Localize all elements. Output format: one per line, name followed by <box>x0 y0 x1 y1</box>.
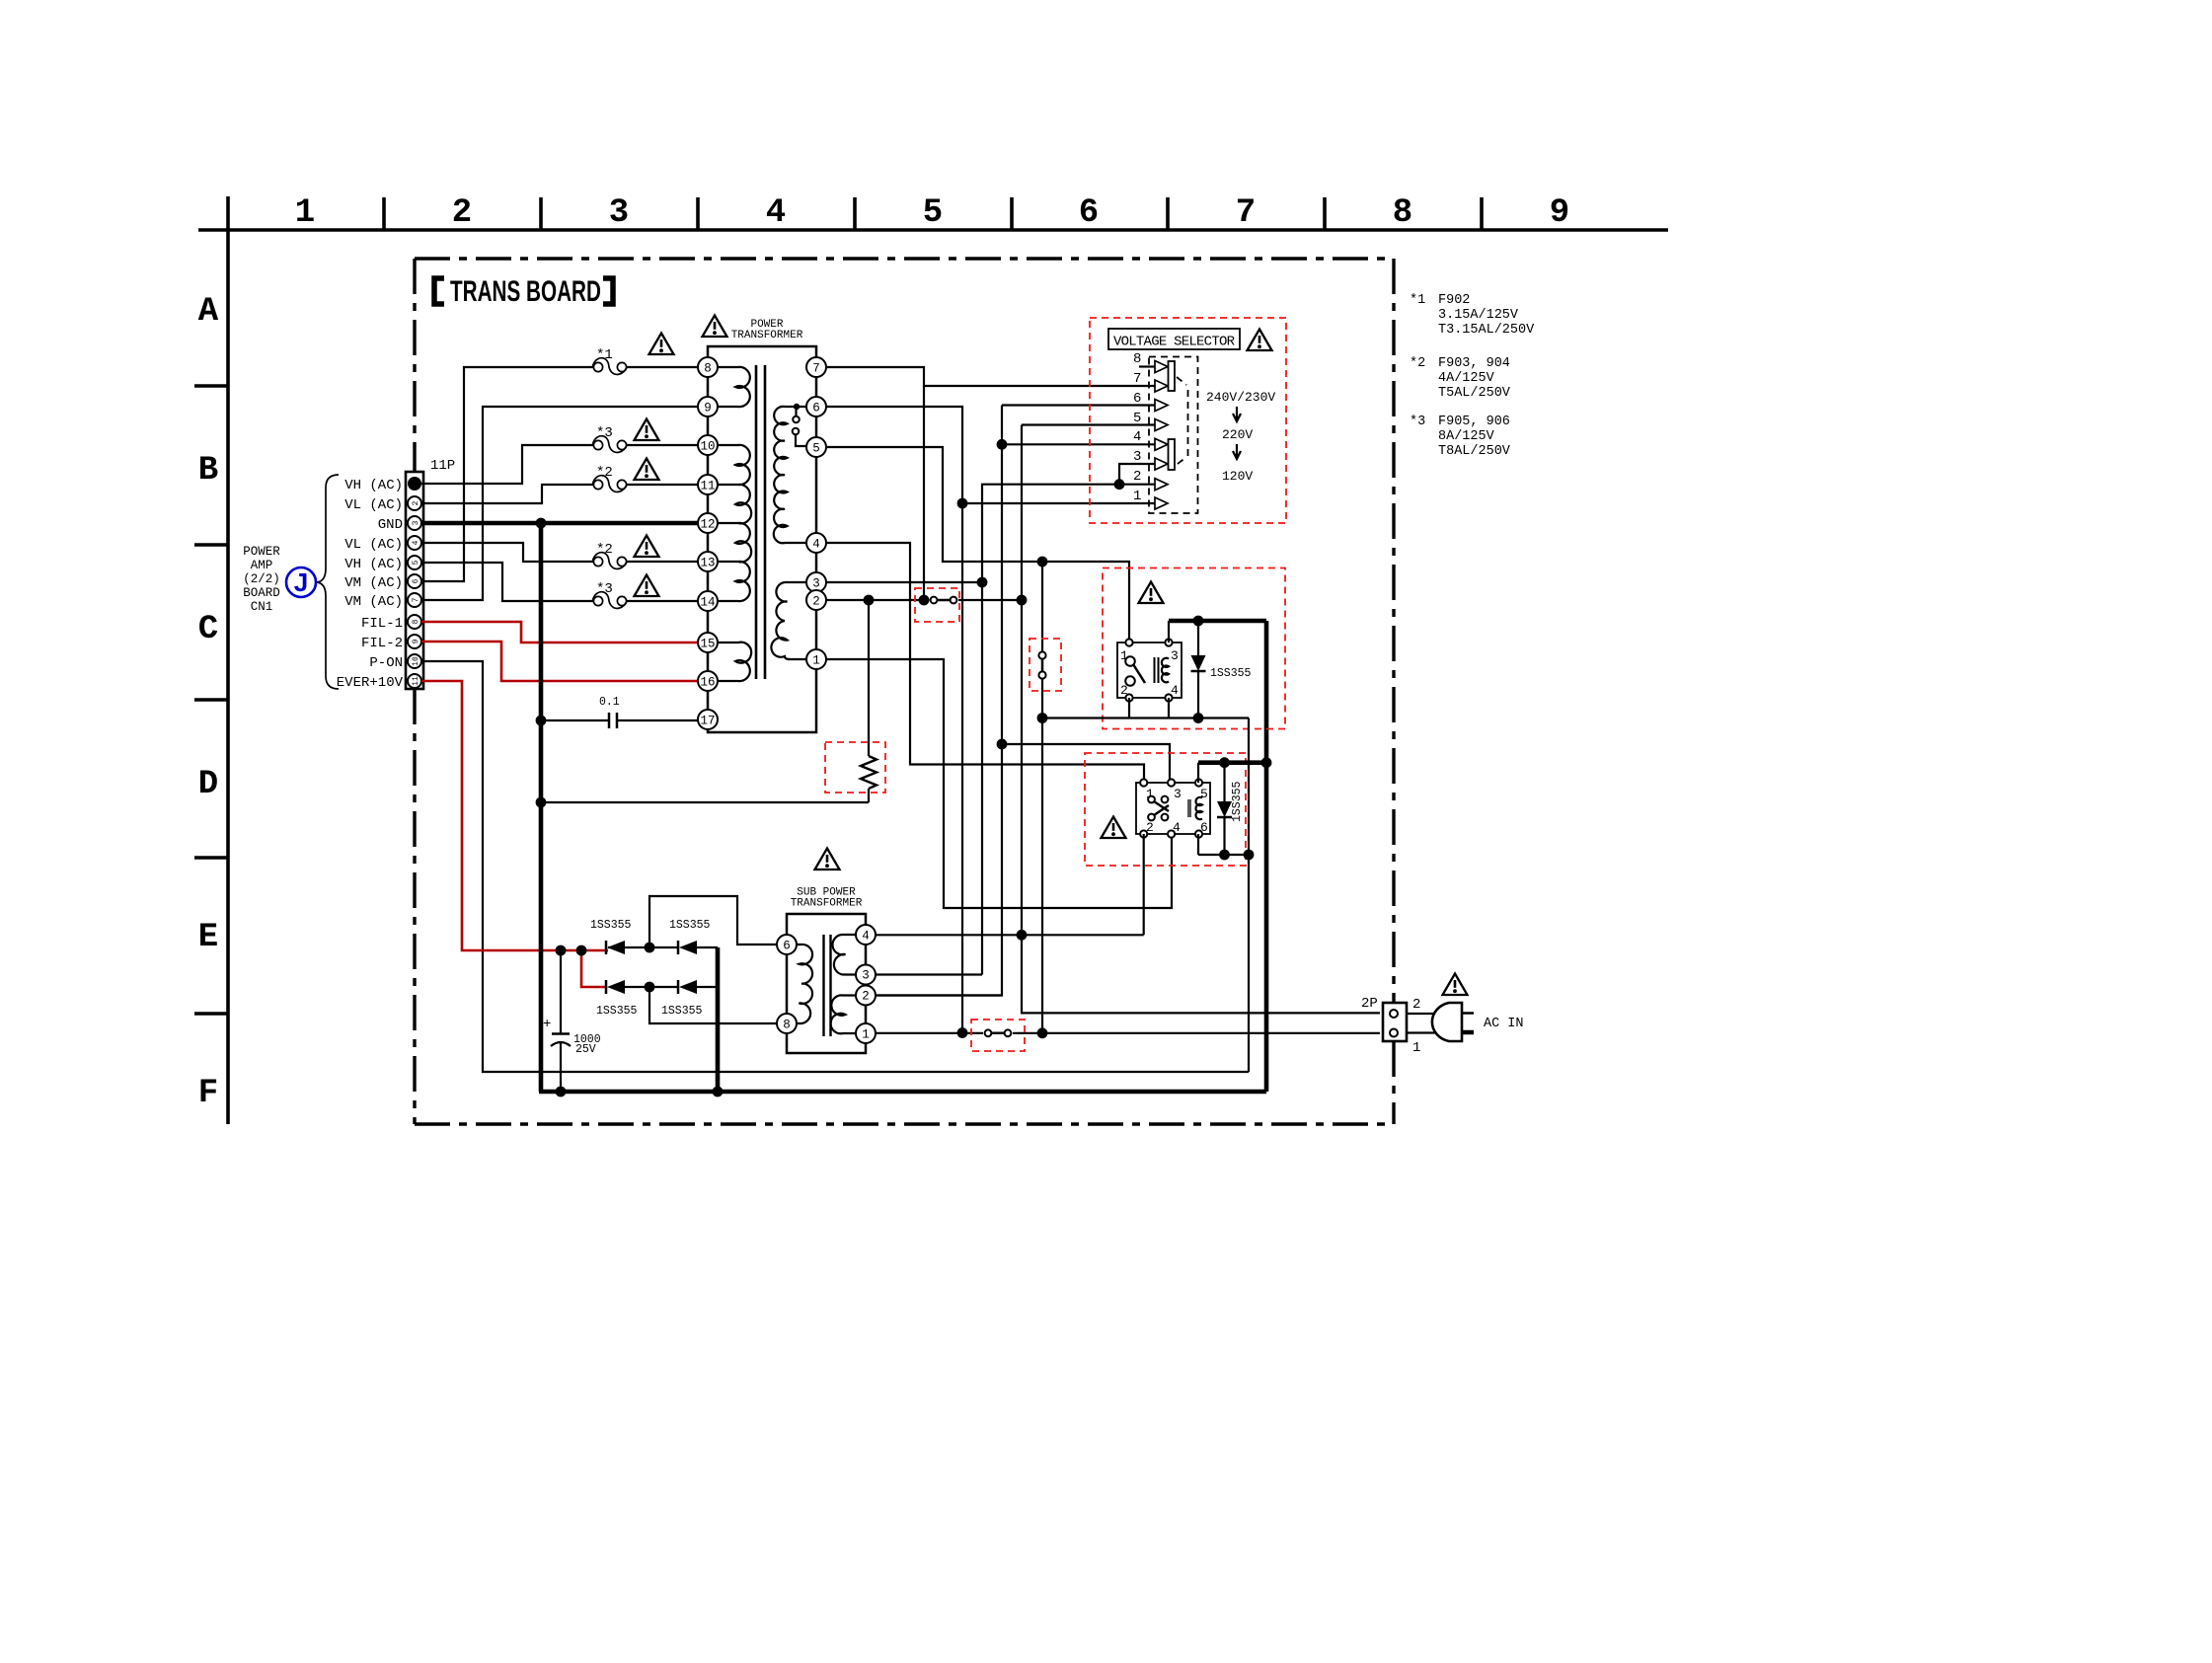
wire pin2 to jumper and 120V bus <box>826 599 929 601</box>
wire VH(AC) pin5 to fuse *3b to XFMR pin14 <box>421 563 596 601</box>
wire selector 4 feed <box>1002 443 1155 445</box>
relay RY901 pin circles <box>1125 639 1132 645</box>
svg-text:8: 8 <box>412 619 420 624</box>
junction on GND vertical for bleeder resistor <box>536 797 547 808</box>
junction cap 1000uF to GND bottom <box>556 1087 567 1097</box>
svg-text:3: 3 <box>609 194 629 232</box>
svg-text:17: 17 <box>700 715 715 728</box>
thick return vertical right <box>1264 621 1269 1092</box>
connector J circle <box>286 567 316 597</box>
svg-text:13: 13 <box>700 557 715 570</box>
warning triangle at power transformer <box>703 316 727 338</box>
svg-text:12: 12 <box>700 518 715 532</box>
svg-text:3: 3 <box>1171 648 1179 663</box>
svg-text:EVER+10V: EVER+10V <box>337 675 404 691</box>
svg-text:VL (AC): VL (AC) <box>344 537 403 553</box>
transformer right pins 7-1 <box>806 357 826 669</box>
svg-text:1: 1 <box>812 654 820 668</box>
svg-text:AC IN: AC IN <box>1484 1017 1524 1031</box>
svg-text:4: 4 <box>812 538 820 552</box>
svg-text:GND: GND <box>378 517 403 533</box>
selector pin numbers <box>1133 351 1141 504</box>
relay RY902 coil <box>1195 797 1202 819</box>
selector black dashed box <box>1149 357 1198 514</box>
wire sub pin4 to relay RY902 pin2 <box>876 934 1144 936</box>
wire AC select connector down to 2P pin1 line <box>1041 718 1043 1033</box>
relay RY902 body <box>1136 783 1210 834</box>
wire relay RY901 pin3 to thick bus <box>1168 621 1170 643</box>
svg-text:5: 5 <box>812 442 820 456</box>
pin labels <box>337 478 404 691</box>
svg-text:CN1: CN1 <box>251 600 273 614</box>
svg-text:5: 5 <box>1200 787 1208 801</box>
wire pin5 to relay RY901 pin1 <box>826 447 1129 643</box>
wire pin3 to sub transformer riser <box>826 581 982 583</box>
relay RY901 contact <box>1125 656 1135 666</box>
svg-text:5: 5 <box>412 560 420 565</box>
transformer core <box>755 365 758 679</box>
AC select service connector (2 circles) <box>1041 562 1043 652</box>
column numbers 1-9 <box>295 194 1569 232</box>
selector lever dashes <box>1177 377 1188 464</box>
sub transformer pins <box>777 935 797 954</box>
svg-text:BOARD: BOARD <box>243 586 280 600</box>
svg-text:VM (AC): VM (AC) <box>344 594 403 610</box>
fuse F905 *3 (pin10 row) <box>593 436 628 453</box>
junction pin3 to sub riser <box>977 577 988 588</box>
svg-text:E: E <box>198 919 218 956</box>
svg-text:POWER: POWER <box>243 545 280 559</box>
pins 2-11 circles <box>408 496 421 688</box>
svg-text:*3: *3 <box>596 581 613 597</box>
svg-text:FIL-2: FIL-2 <box>361 636 403 651</box>
wire pin7 to selector 7 <box>826 367 1155 386</box>
warning triangle at fuse *1 <box>649 334 674 355</box>
warning triangle at relay RY902 <box>1102 817 1126 839</box>
svg-text:VM (AC): VM (AC) <box>344 575 403 591</box>
relay RY901 coil core <box>1154 657 1156 683</box>
svg-text:10: 10 <box>700 440 715 454</box>
top ruler line <box>198 228 1668 232</box>
svg-text:7: 7 <box>812 362 820 376</box>
junction EVER+10V branch <box>576 945 587 956</box>
svg-text:5: 5 <box>923 194 943 232</box>
svg-text:TRANS BOARD: TRANS BOARD <box>450 275 601 308</box>
svg-text:8A/125V: 8A/125V <box>1438 429 1495 444</box>
svg-text:3: 3 <box>1133 449 1141 465</box>
fuse F904 *2 (pin13 row) <box>593 553 628 569</box>
svg-text:4: 4 <box>862 930 870 944</box>
svg-text:A: A <box>198 293 219 331</box>
wire VM(AC) pin6 to fuse *1 to XFMR pin8 <box>421 367 596 581</box>
warning triangle at relay RY901 <box>1139 582 1164 604</box>
junction EVER+10V to capacitor branch <box>556 945 567 956</box>
relay coil return vertical <box>1248 718 1250 1073</box>
svg-text:(2/2): (2/2) <box>243 572 280 586</box>
svg-text:1SS355: 1SS355 <box>669 919 711 932</box>
svg-text:*1: *1 <box>1410 293 1425 308</box>
svg-text:3: 3 <box>812 577 820 591</box>
bridge output vertical (thick) <box>716 947 721 1092</box>
AC power switch S901 <box>988 1032 1008 1035</box>
svg-text:220V: 220V <box>1222 427 1253 442</box>
svg-text:B: B <box>198 452 218 490</box>
junction bleeder resistor on pin2 line <box>864 595 875 606</box>
svg-text:6: 6 <box>412 578 420 583</box>
svg-text:*2: *2 <box>1410 356 1425 371</box>
svg-text:F902: F902 <box>1438 293 1470 308</box>
left ruler ticks <box>194 386 228 1014</box>
thick wire relay RY901 top <box>1169 619 1266 624</box>
svg-text:11: 11 <box>700 480 715 493</box>
2P connector <box>1383 1003 1407 1041</box>
svg-text:1: 1 <box>862 1028 870 1042</box>
junction diode D901 bottom <box>1193 713 1204 723</box>
svg-text:1: 1 <box>295 194 315 232</box>
junction selector7 riser on pin2 line <box>919 595 930 606</box>
selector switch bar 8-7 <box>1169 361 1176 391</box>
svg-text:*3: *3 <box>596 425 613 441</box>
svg-text:0.1: 0.1 <box>599 696 620 709</box>
svg-text:TRANSFORMER: TRANSFORMER <box>731 330 803 341</box>
top ruler ticks <box>384 197 1482 230</box>
pin numbers (rotated) <box>412 500 420 685</box>
wire GND to bleeder resistor <box>541 801 869 803</box>
svg-text:11P: 11P <box>430 458 455 474</box>
svg-text:2: 2 <box>452 194 472 232</box>
wire selector 5 feed <box>1022 423 1155 425</box>
wire relay RY901 bottom bus <box>1042 717 1249 718</box>
svg-text:1SS355: 1SS355 <box>596 1005 638 1018</box>
svg-text:+: + <box>543 1017 551 1032</box>
transformer left pins 8-17 <box>698 357 718 729</box>
transformer outline box <box>708 346 816 377</box>
120V bus vertical (selector 5 - pin2 - 2P) <box>1022 425 1380 1014</box>
wire pin1 to relay RY902 pin4 <box>826 659 1172 908</box>
svg-text:10: 10 <box>412 656 420 666</box>
svg-text:1SS355: 1SS355 <box>590 919 632 932</box>
wire selector 3 jog <box>1119 464 1155 485</box>
secondary winding upper coil (pins 6-5-4) <box>785 406 806 408</box>
svg-text:8: 8 <box>1393 194 1412 232</box>
wire VM(AC) pin7 to XFMR pin9 <box>421 407 698 600</box>
sub transformer pin3 riser / selector 2 feed <box>982 485 1155 975</box>
junction coil return <box>1244 850 1255 861</box>
border left (interrupted by 11P connector) <box>413 259 416 472</box>
svg-text:25V: 25V <box>575 1043 596 1056</box>
junction thick bus <box>1261 757 1272 768</box>
wire upper diode row <box>625 946 678 948</box>
svg-text:8: 8 <box>783 1019 791 1032</box>
red branch to lower diode row <box>581 950 605 987</box>
svg-text:4: 4 <box>412 540 420 545</box>
relay RY902 pin numbers <box>1146 787 1208 835</box>
relay RY902 contacts <box>1148 796 1155 803</box>
relay RY901 pin numbers <box>1120 648 1179 698</box>
wire sub pin6 to bridge top <box>649 896 777 947</box>
svg-text:VOLTAGE SELECTOR: VOLTAGE SELECTOR <box>1113 335 1236 350</box>
svg-text:2: 2 <box>1133 469 1141 485</box>
svg-text:1SS355: 1SS355 <box>1210 667 1252 680</box>
transformer left pin numbers <box>700 362 715 728</box>
junction selector 4 feed <box>997 439 1008 450</box>
selector 6/4 bus (to sub pin2 and relay RY902 pin3) <box>868 406 1002 996</box>
junction pin6 bus at switch line <box>957 1027 968 1038</box>
wire pin6 right and down <box>826 407 962 1033</box>
secondary winding lower coil (pins 3-1) <box>785 581 806 583</box>
junction diode D902 top <box>1219 757 1230 768</box>
junction AC select connector bottom <box>1037 713 1048 723</box>
svg-text:T8AL/250V: T8AL/250V <box>1438 444 1511 459</box>
svg-text:4: 4 <box>1133 429 1141 445</box>
svg-text:P-ON: P-ON <box>369 655 403 671</box>
wire sub pin3 riser <box>876 973 982 975</box>
right pin column segments <box>815 377 818 649</box>
svg-text:7: 7 <box>1236 194 1256 232</box>
svg-text:15: 15 <box>700 638 715 651</box>
svg-text:2: 2 <box>412 500 420 505</box>
svg-text:2P: 2P <box>1361 996 1378 1012</box>
svg-text:T3.15AL/250V: T3.15AL/250V <box>1438 323 1535 338</box>
svg-text:3: 3 <box>1174 787 1182 801</box>
warning triangle at fuse *2a <box>635 459 659 481</box>
svg-text:4: 4 <box>766 194 786 232</box>
wire sub pin2 to selector bus <box>876 994 1002 996</box>
junction diode D901 top <box>1193 616 1204 627</box>
brace from J to connector labels <box>317 475 339 689</box>
sub transformer pin numbers <box>783 930 870 1042</box>
warning triangle at fuse *2b <box>635 536 659 558</box>
diode D901 1SS355 <box>1197 621 1199 655</box>
svg-text:16: 16 <box>700 676 715 690</box>
wire selector 1 feed <box>962 502 1155 504</box>
svg-text:6: 6 <box>812 402 820 416</box>
sub primary coil <box>797 945 812 1023</box>
svg-text:*2: *2 <box>596 542 613 558</box>
wire sub pin8 to bridge bottom mid <box>649 987 777 1023</box>
svg-text:7: 7 <box>412 597 420 602</box>
relay RY902 coil core <box>1187 799 1191 817</box>
diode D902 1SS355 <box>1223 763 1225 801</box>
left pin column segments <box>707 377 710 710</box>
svg-text:2: 2 <box>1412 997 1420 1013</box>
svg-text:C: C <box>198 611 218 648</box>
svg-text:F: F <box>198 1075 218 1112</box>
warning triangle at voltage selector <box>1248 330 1272 351</box>
wire GND pin3 to XFMR pin12 (thick) <box>421 521 698 526</box>
fuse F902 *1 <box>593 358 628 375</box>
svg-text:14: 14 <box>700 596 715 610</box>
primary winding 10-14 coil <box>718 445 751 601</box>
junction AC select connector on relay feed <box>1037 557 1048 567</box>
junction relay RY902 pin3 feed <box>997 739 1008 750</box>
warning triangle at AC inlet <box>1443 974 1468 996</box>
svg-text:3: 3 <box>412 520 420 525</box>
junction bridge output to GND bottom <box>713 1087 724 1097</box>
svg-text:1: 1 <box>1133 489 1141 504</box>
wire lower diode row <box>625 986 678 988</box>
GND bottom run (thick) <box>539 1090 1266 1095</box>
jumper switch on pin2 line <box>934 599 953 602</box>
wire 2P pin1 to plug <box>1407 1031 1437 1033</box>
row letters A-F <box>198 293 219 1112</box>
svg-text:VL (AC): VL (AC) <box>344 497 403 513</box>
svg-text:5: 5 <box>1133 411 1141 426</box>
border top <box>415 257 1394 260</box>
svg-text:FIL-1: FIL-1 <box>361 616 403 632</box>
wire relay RY902 coil bottom <box>1197 834 1199 855</box>
wire FIL-1 pin8 to XFMR pin15 (red) <box>421 622 700 643</box>
wire VH(AC) pin1 to fuse *3a to XFMR pin10 <box>421 445 596 484</box>
svg-text:4A/125V: 4A/125V <box>1438 371 1495 386</box>
svg-text:2: 2 <box>812 595 820 609</box>
wire selector 6 feed <box>1002 404 1155 406</box>
junction selector 3 jog <box>1114 479 1125 490</box>
svg-text:120V: 120V <box>1222 469 1253 484</box>
svg-text:T5AL/250V: T5AL/250V <box>1438 386 1511 401</box>
primary winding 8-9 coil <box>718 367 750 407</box>
svg-text:8: 8 <box>704 362 712 376</box>
transformer right pin numbers <box>812 362 820 668</box>
left ruler line <box>226 196 230 1124</box>
AC plug symbol <box>1432 1003 1462 1041</box>
thermal tap switch in winding <box>794 404 800 410</box>
border right (interrupted by 2P connector) <box>1392 259 1395 1003</box>
selector arrows <box>1155 361 1168 510</box>
svg-text:11: 11 <box>412 676 420 686</box>
junction diode D902 bottom <box>1219 850 1230 861</box>
connector CN1 body <box>406 472 423 689</box>
wire VL(AC) pin2 to fuse *2a to XFMR pin11 <box>421 485 596 503</box>
svg-text:9: 9 <box>704 402 712 416</box>
selector switch bar 4-3 <box>1169 439 1176 470</box>
wire relay RY902 pin2 down to sub transformer pin4 line <box>1143 834 1145 935</box>
svg-text:6: 6 <box>1133 391 1141 407</box>
thick wire relay RY902 top <box>1198 760 1266 765</box>
sub secondary coil lower <box>831 995 856 1033</box>
junction on 2P pin1 line <box>1037 1027 1048 1038</box>
fuse F906 *3 (pin14 row) <box>593 592 628 609</box>
svg-text:1SS355: 1SS355 <box>661 1005 703 1018</box>
warning triangle at fuse *3b <box>635 575 659 597</box>
relay RY901 coil <box>1162 658 1169 683</box>
svg-text:*2: *2 <box>596 465 613 481</box>
wire to relay RY902 pin3 <box>1002 744 1170 783</box>
GND vertical (thick) <box>539 523 544 1092</box>
junction 120V bus on pin2 line <box>1017 595 1028 606</box>
svg-text:7: 7 <box>1133 371 1141 387</box>
wire sub pin1 to AC switch to 2P pin1 <box>876 1032 983 1034</box>
svg-text:F905, 906: F905, 906 <box>1438 415 1510 429</box>
svg-text:6: 6 <box>783 940 791 953</box>
svg-text:2: 2 <box>862 990 870 1004</box>
fuse F903 *2 (pin11 row) <box>593 476 628 492</box>
selector pin 8 stub <box>1139 365 1155 367</box>
wire pin4 down to relay RY902 pin1 <box>826 543 1144 783</box>
wire P-ON pin10 down and right to relay coil bus <box>421 661 1249 1072</box>
svg-text:8: 8 <box>1133 351 1141 367</box>
pin 1 (filled) <box>408 477 421 491</box>
relay RY901 body <box>1117 643 1182 698</box>
junction pin6 bus to selector 1 <box>957 498 968 509</box>
svg-text:1: 1 <box>1412 1040 1420 1056</box>
junction sub transformer pin4 line on 120V bus <box>1017 930 1028 941</box>
svg-text:3.15A/125V: 3.15A/125V <box>1438 308 1519 323</box>
svg-text:9: 9 <box>1550 194 1569 232</box>
relay RY902 pin circles <box>1140 779 1147 786</box>
wire EVER+10V pin11 (red) down to rectifier <box>421 681 608 950</box>
sub secondary coil upper <box>832 935 856 975</box>
svg-text:D: D <box>198 766 218 803</box>
svg-text:TRANSFORMER: TRANSFORMER <box>791 898 863 910</box>
wire FIL-2 pin9 to XFMR pin16 (red) <box>421 642 700 681</box>
svg-text:J: J <box>294 567 308 597</box>
svg-text:1SS355: 1SS355 <box>1231 781 1244 822</box>
svg-text:VH (AC): VH (AC) <box>344 478 403 493</box>
svg-text:F903, 904: F903, 904 <box>1438 356 1510 371</box>
svg-text:VH (AC): VH (AC) <box>344 557 403 572</box>
svg-text:AMP: AMP <box>251 559 273 572</box>
svg-text:240V/230V: 240V/230V <box>1206 390 1275 405</box>
svg-text:6: 6 <box>1079 194 1099 232</box>
warning triangle at sub power transformer <box>815 849 840 870</box>
svg-text:*3: *3 <box>1410 415 1425 429</box>
border bottom <box>415 1122 1394 1125</box>
svg-text:9: 9 <box>412 639 420 643</box>
heater winding 15-16 coil <box>718 643 751 681</box>
board title TRANS BOARD with lenticular brackets <box>434 275 613 308</box>
wire 2P pin2 to plug <box>1407 1013 1437 1015</box>
sub transformer outline <box>787 914 866 935</box>
wire VL(AC) pin4 to fuse *2b to XFMR pin13 <box>421 543 596 562</box>
wire 0.1 cap from GND vertical to XFMR pin17 <box>541 719 608 721</box>
sub transformer core <box>822 935 824 1036</box>
svg-text:3: 3 <box>862 969 870 983</box>
junction GND <box>536 518 547 529</box>
warning triangle at fuse *3a <box>635 419 659 441</box>
capacitor 0.1 <box>608 713 611 728</box>
svg-text:*1: *1 <box>596 347 613 363</box>
